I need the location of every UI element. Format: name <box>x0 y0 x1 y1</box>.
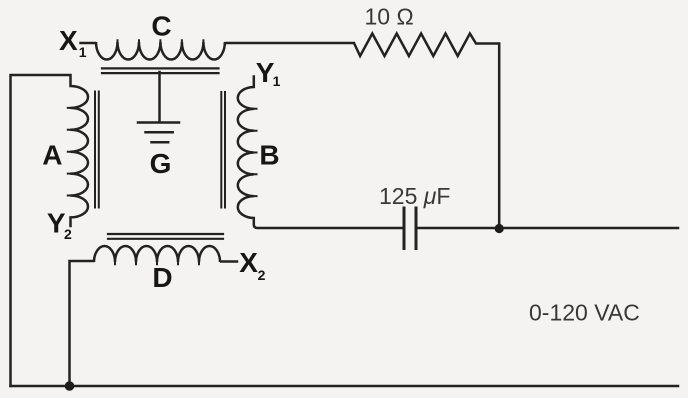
svg-text:X: X <box>59 25 78 56</box>
svg-text:A: A <box>42 140 62 171</box>
svg-text:1: 1 <box>273 73 281 89</box>
svg-text:10 Ω: 10 Ω <box>365 4 414 30</box>
svg-text:B: B <box>259 139 279 170</box>
svg-text:1: 1 <box>79 44 87 60</box>
svg-text:0-120 VAC: 0-120 VAC <box>529 299 640 325</box>
svg-text:X: X <box>239 247 258 278</box>
svg-text:2: 2 <box>64 226 72 242</box>
svg-text:D: D <box>152 262 172 293</box>
svg-text:125 μF: 125 μF <box>379 183 450 209</box>
svg-text:C: C <box>151 10 171 41</box>
svg-text:G: G <box>150 148 172 179</box>
svg-text:2: 2 <box>258 267 266 283</box>
